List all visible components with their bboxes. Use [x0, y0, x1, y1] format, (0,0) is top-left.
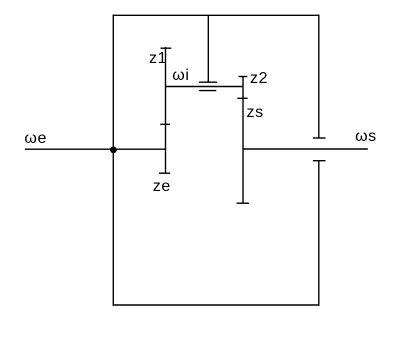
- wire: box right edge upper segment: [318, 15, 320, 138]
- wire: box right edge lower segment: [318, 161, 320, 306]
- terminal tick: right edge lower: [313, 160, 326, 162]
- wire: internal line ωi: [166, 86, 244, 88]
- MOS transistor: substrate bar: [199, 90, 216, 92]
- terminal tick: between z2 and zs: [237, 97, 247, 99]
- label ωi: [172, 68, 189, 84]
- terminal tick: between z1 and ze: [160, 123, 170, 125]
- label ωs: [355, 129, 377, 145]
- MOS transistor: gate bar: [199, 81, 217, 83]
- terminal tick: right edge upper: [313, 137, 326, 139]
- wire: quadripole box top edge: [113, 14, 320, 16]
- terminal tick: bottom of zs: [237, 202, 249, 204]
- label zs: [247, 105, 264, 121]
- wire: output line (ωs): [243, 148, 368, 150]
- wire: input line (ωe): [25, 148, 166, 150]
- MOS transistor: gate lead from top rail: [207, 15, 209, 82]
- node: junction dot at box input: [110, 147, 117, 154]
- terminal tick: top of z2: [239, 76, 248, 78]
- wire: quadripole box left edge: [112, 15, 114, 306]
- label ze: [153, 179, 171, 195]
- impedance branch z1/ze: vertical line: [165, 47, 167, 173]
- label z1: [149, 51, 167, 67]
- terminal tick: bottom of ze: [159, 172, 170, 174]
- terminal tick: top of z1: [161, 47, 172, 49]
- label z2: [250, 71, 268, 87]
- impedance branch z2/zs: vertical line: [242, 76, 244, 203]
- label ωe: [24, 131, 47, 147]
- wire: quadripole box bottom edge: [113, 304, 320, 306]
